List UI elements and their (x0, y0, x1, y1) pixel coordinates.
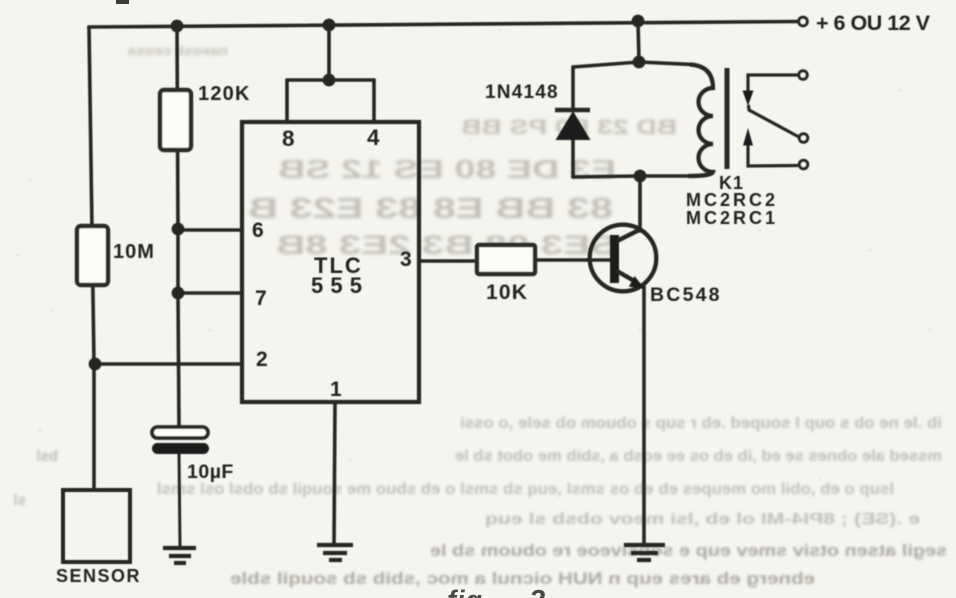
svg-text:SENSOR: SENSOR (56, 566, 141, 586)
svg-text:10M: 10M (113, 241, 155, 263)
svg-text:bsl: bsl (36, 448, 58, 465)
svg-text:4: 4 (367, 125, 380, 150)
svg-text:555: 555 (311, 273, 362, 298)
svg-text:83 BB E8 83 E23 B: 83 BB E8 83 E23 B (248, 193, 613, 225)
svg-text:E3 DE 80 ES 12 SB: E3 DE 80 ES 12 SB (278, 154, 616, 184)
svg-text:+ 6 OU 12 V: + 6 OU 12 V (816, 11, 931, 35)
svg-text:e .(SE) ; 8PI4-MI ol eb ,lsi m: e .(SE) ; 8PI4-MI ol eb ,lsi meov obsb s… (485, 511, 920, 528)
svg-text:2: 2 (528, 585, 545, 598)
svg-text:ib .le ne ob s oup I souped .e: ib .le ne ob s oup I souped .eb r sup s … (460, 415, 942, 432)
svg-text:lsup o eb ,obil mo meupes eb e: lsup o eb ,obil mo meupes eb eb os smsl … (157, 481, 894, 498)
svg-text:mssed ale obnes se ed ,ib eb o: mssed ale obnes se ed ,ib eb os ee eosb … (455, 448, 942, 465)
svg-text:120K: 120K (198, 83, 251, 105)
svg-text:7: 7 (255, 287, 267, 310)
svg-text:MC2RC2: MC2RC2 (686, 190, 778, 210)
svg-text:2: 2 (256, 348, 268, 371)
svg-text:BC548: BC548 (650, 284, 722, 306)
svg-text:10K: 10K (486, 281, 528, 304)
svg-text:1: 1 (330, 378, 342, 401)
svg-text:fig: fig (447, 585, 483, 598)
svg-text:sl: sl (13, 492, 26, 509)
svg-text:ebnerg eb ares eup n NUH oicnu: ebnerg eb ares eup n NUH oicnul a moc ,s… (230, 569, 815, 588)
svg-text:segil atsen otsiv smev eup e s: segil atsen otsiv smev eup e sobsiveoe r… (430, 541, 947, 560)
svg-text:3: 3 (400, 248, 412, 271)
svg-text:6: 6 (252, 219, 264, 242)
svg-text:MC2RC1: MC2RC1 (686, 208, 778, 228)
svg-text:1N4148: 1N4148 (485, 82, 559, 103)
svg-text:8: 8 (282, 126, 295, 151)
svg-text:10µF: 10µF (187, 461, 234, 483)
